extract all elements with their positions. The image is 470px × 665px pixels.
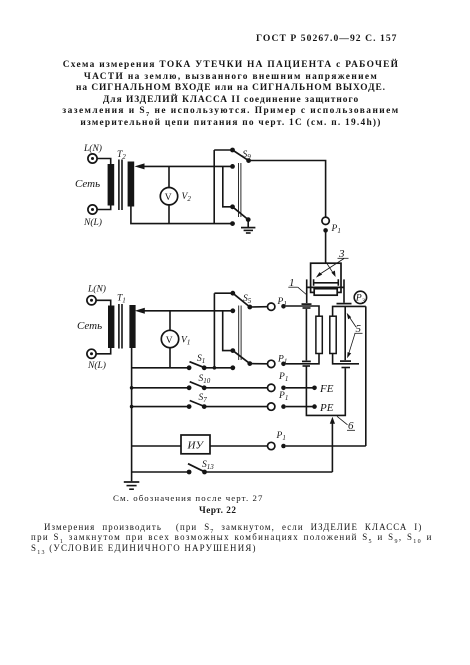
svg-text:P1: P1 (276, 431, 286, 442)
switch S1 (132, 362, 233, 370)
terminal P1 ИУ row (268, 442, 286, 449)
voltmeter V2 (160, 166, 177, 223)
bottom paragraph line 2 (31, 532, 433, 542)
wire T2 secondary bottom (131, 207, 233, 224)
terminal L(N) top (88, 154, 97, 163)
terminal N(L) top (88, 205, 97, 214)
wire P1 row1 to resistor 5a (286, 306, 319, 316)
bottom paragraph line 1 (44, 522, 422, 532)
capacitor row1 left (302, 304, 312, 308)
switch S5 (213, 291, 253, 370)
wire ИУ to right rail (286, 445, 366, 447)
wire (97, 300, 111, 306)
svg-text:FE: FE (319, 383, 334, 395)
node FE (312, 383, 334, 395)
wire S13 to enclosure with arrow (330, 417, 335, 472)
svg-text:V: V (166, 336, 173, 346)
wire row2 right (333, 354, 359, 364)
wire with arrow into T2 secondary (135, 163, 233, 169)
left rail (131, 348, 133, 481)
svg-text:S1: S1 (197, 354, 205, 365)
svg-text:V2: V2 (182, 192, 192, 203)
transformer T1 core (119, 304, 122, 349)
wire P1 row2 to resistor 5a (286, 354, 319, 364)
bottom paragraph line 3 (31, 543, 257, 553)
capacitor row2 right (340, 361, 351, 367)
transformer T2 core (119, 160, 122, 211)
svg-text:S5: S5 (243, 294, 252, 305)
resistor 5b (330, 316, 336, 353)
note below figure (113, 493, 264, 503)
svg-text:Сеть: Сеть (75, 178, 100, 190)
terminal P1 FE row (268, 384, 315, 391)
svg-text:S10: S10 (199, 374, 211, 385)
ground left rail (124, 482, 140, 489)
svg-text:L(N): L(N) (87, 284, 106, 295)
svg-text:Сеть: Сеть (77, 320, 102, 332)
svg-text:L(N): L(N) (83, 143, 102, 154)
svg-text:N(L): N(L) (87, 360, 106, 371)
terminal P1 top (322, 217, 329, 233)
wire ear left of box 3 (306, 279, 308, 303)
wire with arrow into T1 secondary (135, 308, 233, 314)
header ГОСТ (256, 33, 398, 44)
terminal P1 PE row (268, 403, 315, 410)
terminal N(L) mid (87, 349, 96, 358)
svg-text:P3: P3 (355, 293, 365, 304)
enclosure 6 (306, 367, 345, 416)
label P3 (354, 291, 366, 304)
wire (97, 348, 111, 354)
applied part plate 1 (314, 289, 337, 296)
box 3 signal input-output part (311, 263, 341, 292)
wire (98, 159, 111, 165)
wire S9 to P1 (249, 161, 326, 217)
voltmeter V1 (161, 311, 178, 368)
svg-text:S9: S9 (243, 150, 252, 161)
wire mid-right vertical (344, 306, 346, 360)
svg-text:V1: V1 (181, 336, 190, 347)
transformer T1 secondary (129, 305, 135, 348)
wire ear right of box 3 (343, 279, 345, 302)
svg-text:S7: S7 (199, 393, 208, 404)
svg-text:T1: T1 (117, 294, 126, 305)
applied part electrodes in box 3 (314, 279, 339, 286)
title paragraph (20, 60, 442, 129)
transformer T2 primary (108, 164, 115, 206)
switch S9 (214, 148, 251, 226)
transformer T1 primary (108, 306, 114, 349)
svg-text:P1: P1 (331, 224, 341, 235)
label 6 with callout (337, 416, 355, 432)
terminal P1 row2 (250, 360, 286, 367)
transformer T2 secondary (128, 162, 135, 207)
label 3 with callout arrows (316, 248, 349, 278)
label 1 with callout (288, 277, 306, 295)
switch S13 (132, 464, 333, 475)
device under test box ИУ (181, 435, 210, 454)
switch S10 (130, 382, 268, 390)
svg-text:P1: P1 (277, 297, 287, 308)
wire between ears behind plate (307, 286, 344, 288)
svg-text:V: V (165, 193, 172, 203)
wire P1 to box 3 (325, 230, 327, 263)
label 5 with callout arrows (347, 313, 363, 359)
svg-text:T2: T2 (117, 150, 126, 161)
resistor 5a (316, 316, 322, 353)
wire row1 right (333, 306, 366, 316)
wire left column (305, 309, 307, 361)
capacitor row1 right (337, 303, 352, 305)
terminal L(N) mid (87, 296, 96, 305)
node PE (312, 402, 334, 414)
caption Черт. 22 (199, 505, 236, 515)
svg-text:PE: PE (319, 402, 334, 414)
wire ИУ row (132, 445, 268, 447)
wire (98, 205, 111, 210)
capacitor row2 left (302, 361, 311, 366)
svg-text:S13: S13 (202, 460, 214, 471)
ground under S9 (241, 220, 255, 233)
svg-text:P1: P1 (278, 391, 288, 402)
svg-text:N(L): N(L) (83, 217, 102, 228)
right rail (365, 306, 367, 446)
svg-text:ИУ: ИУ (187, 440, 205, 452)
terminal P1 row1 (250, 303, 286, 310)
svg-text:P1: P1 (278, 372, 288, 383)
switch S7 (130, 401, 268, 410)
